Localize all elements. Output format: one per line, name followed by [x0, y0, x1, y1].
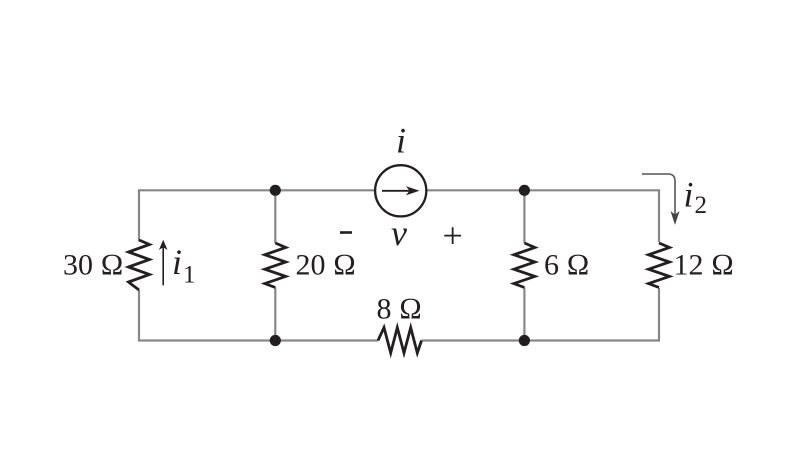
- svg-text:i: i: [396, 121, 406, 161]
- node dot top-right junction: [519, 185, 530, 196]
- wire column2 lower: [274, 288, 276, 341]
- wire top-right horizontal: [427, 190, 660, 242]
- resistor 20ohm zigzag: [265, 243, 286, 288]
- wire bottom-right horizontal: [422, 288, 660, 341]
- resistor 6ohm zigzag: [514, 243, 535, 288]
- svg-text:2: 2: [695, 192, 708, 219]
- node dot top-left junction: [270, 185, 281, 196]
- current source arrow: [382, 190, 412, 192]
- resistor 8ohm zigzag: [378, 328, 422, 354]
- wire top-left horizontal: [139, 190, 375, 241]
- wire column3 upper: [523, 190, 525, 243]
- node dot bottom-right junction: [519, 335, 530, 346]
- current arrow i2 hook: [642, 174, 675, 216]
- svg-text:20 Ω: 20 Ω: [296, 248, 357, 281]
- wire column3 lower: [523, 288, 525, 341]
- svg-text:8 Ω: 8 Ω: [377, 293, 423, 326]
- svg-text:6 Ω: 6 Ω: [544, 249, 590, 282]
- node dot bottom-left junction: [270, 335, 281, 346]
- current arrow i1: [162, 247, 164, 285]
- resistor 30ohm zigzag: [129, 240, 150, 290]
- svg-text:1: 1: [183, 262, 196, 289]
- current source circle: [375, 165, 426, 216]
- svg-text:30 Ω: 30 Ω: [63, 248, 124, 281]
- svg-text:+: +: [443, 216, 463, 256]
- wire left vertical lower: [139, 290, 378, 341]
- svg-text:12 Ω: 12 Ω: [674, 249, 735, 282]
- svg-text:v: v: [391, 213, 407, 253]
- svg-text:i: i: [172, 242, 182, 282]
- svg-text:i: i: [684, 175, 694, 215]
- resistor 12ohm zigzag: [649, 243, 670, 288]
- wire column2 upper: [274, 190, 276, 243]
- label minus sign: [340, 231, 352, 234]
